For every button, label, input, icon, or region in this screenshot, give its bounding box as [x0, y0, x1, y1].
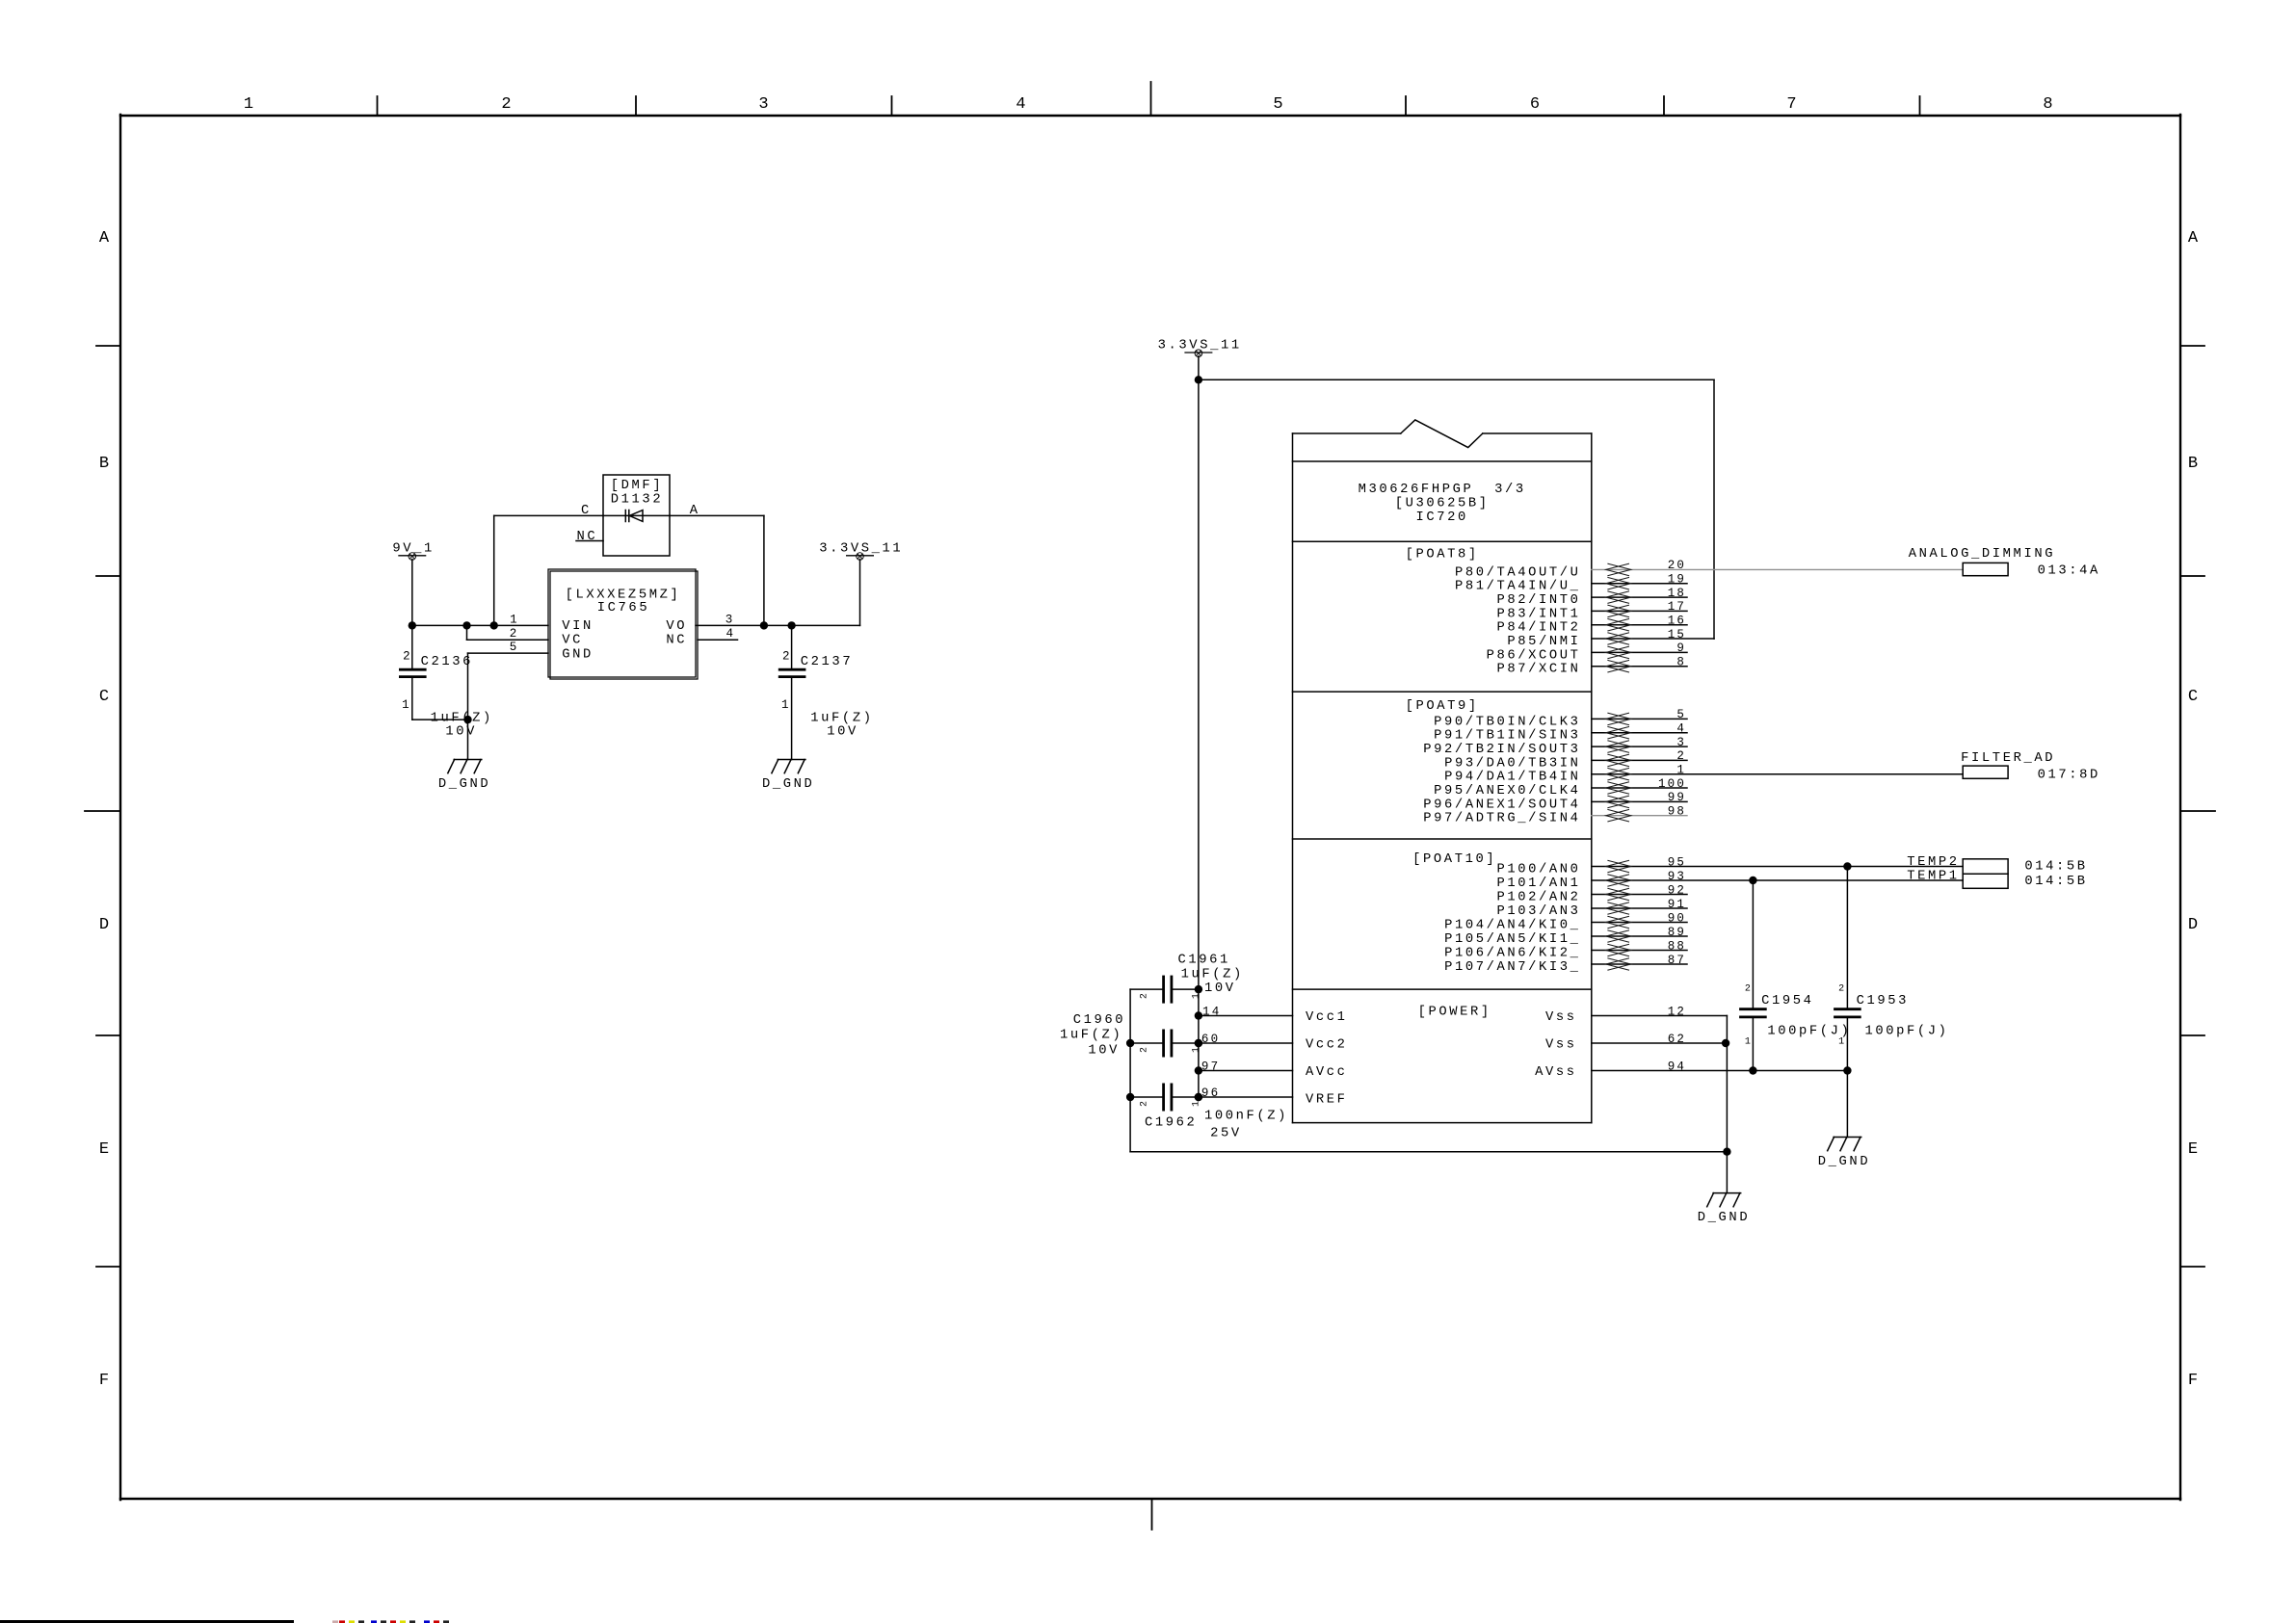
- junction C2136/GND: [463, 716, 471, 723]
- 3.3V rail to pin15: [1713, 380, 1715, 639]
- svg-text:88: 88: [1668, 939, 1686, 953]
- svg-text:1uF(Z): 1uF(Z): [810, 711, 873, 726]
- svg-text:18: 18: [1668, 587, 1686, 600]
- capacitor C2136: [411, 625, 413, 668]
- left cap rail: [1129, 989, 1131, 1152]
- svg-text:89: 89: [1668, 926, 1686, 939]
- svg-text:VREF: VREF: [1306, 1093, 1348, 1108]
- capacitor C2136 plates: [399, 669, 427, 676]
- svg-text:8: 8: [1676, 656, 1686, 669]
- 3.3V rail horizontal: [1199, 379, 1714, 380]
- svg-text:ANALOG_DIMMING: ANALOG_DIMMING: [1909, 547, 2055, 562]
- svg-text:90: 90: [1668, 911, 1686, 925]
- svg-text:C: C: [581, 504, 592, 518]
- ground D_GND (C2137): [772, 760, 805, 773]
- svg-text:P85/NMI: P85/NMI: [1507, 634, 1580, 649]
- diode D1132 box: [603, 475, 670, 556]
- svg-text:97: 97: [1201, 1060, 1220, 1073]
- diode D1132 symbol: [603, 510, 670, 522]
- svg-text:P83/INT1: P83/INT1: [1496, 606, 1580, 621]
- svg-text:15: 15: [1668, 628, 1686, 641]
- capacitor C1953: [1846, 867, 1848, 1008]
- svg-text:Vcc2: Vcc2: [1306, 1038, 1348, 1053]
- svg-text:014:5B: 014:5B: [2024, 875, 2087, 889]
- svg-text:3: 3: [726, 613, 735, 626]
- wire VC pin2: [466, 625, 468, 640]
- svg-text:E: E: [99, 1140, 109, 1159]
- svg-text:[DMF]: [DMF]: [611, 478, 663, 493]
- svg-text:NC: NC: [666, 634, 687, 648]
- svg-text:1: 1: [1676, 764, 1686, 777]
- svg-text:P100/AN0: P100/AN0: [1496, 862, 1580, 877]
- svg-text:91: 91: [1668, 898, 1686, 911]
- svg-text:2: 2: [1139, 993, 1149, 999]
- svg-text:2: 2: [501, 95, 511, 114]
- svg-text:B: B: [99, 455, 109, 473]
- svg-text:TEMP2: TEMP2: [1907, 855, 1959, 870]
- svg-text:2: 2: [782, 650, 792, 664]
- svg-text:96: 96: [1201, 1086, 1220, 1100]
- svg-text:P86/XCOUT: P86/XCOUT: [1487, 647, 1581, 663]
- svg-text:017:8D: 017:8D: [2038, 769, 2100, 783]
- svg-text:VO: VO: [666, 619, 687, 634]
- svg-text:99: 99: [1668, 791, 1686, 804]
- junction diode A: [760, 621, 768, 629]
- svg-text:2: 2: [1139, 1101, 1149, 1107]
- svg-text:C: C: [2188, 688, 2198, 706]
- svg-text:1: 1: [1191, 1047, 1201, 1053]
- svg-text:FILTER_AD: FILTER_AD: [1961, 751, 2055, 766]
- junction C1954 top: [1749, 877, 1756, 884]
- svg-text:P102/AN2: P102/AN2: [1496, 890, 1580, 905]
- junction diode C: [490, 621, 498, 629]
- svg-text:1: 1: [1191, 993, 1201, 999]
- svg-text:3.3VS_11: 3.3VS_11: [1158, 339, 1242, 353]
- wire diode anode: [670, 514, 764, 516]
- svg-text:94: 94: [1668, 1060, 1686, 1073]
- wire diode cathode to input: [493, 515, 495, 625]
- svg-text:P101/AN1: P101/AN1: [1496, 876, 1580, 891]
- svg-text:9V_1: 9V_1: [392, 541, 435, 556]
- svg-text:4: 4: [1676, 722, 1686, 736]
- svg-text:M30626FHPGP 3/3: M30626FHPGP 3/3: [1359, 482, 1526, 497]
- capacitor C1962: [1130, 1096, 1162, 1098]
- svg-text:1uF(Z): 1uF(Z): [1181, 966, 1244, 982]
- svg-text:P82/INT0: P82/INT0: [1496, 592, 1580, 608]
- svg-text:NC: NC: [577, 530, 598, 544]
- svg-text:19: 19: [1668, 573, 1686, 587]
- svg-text:D_GND: D_GND: [1818, 1155, 1870, 1169]
- svg-text:14: 14: [1202, 1005, 1221, 1018]
- svg-text:P94/DA1/TB4IN: P94/DA1/TB4IN: [1444, 770, 1580, 785]
- svg-text:C1961: C1961: [1178, 954, 1230, 968]
- svg-text:1: 1: [1745, 1037, 1751, 1048]
- svg-text:10V: 10V: [1204, 982, 1236, 996]
- junction Vss62: [1722, 1039, 1729, 1047]
- svg-text:D_GND: D_GND: [1698, 1211, 1750, 1225]
- svg-text:F: F: [99, 1372, 109, 1390]
- svg-text:93: 93: [1668, 870, 1686, 883]
- svg-text:P95/ANEX0/CLK4: P95/ANEX0/CLK4: [1434, 783, 1580, 798]
- svg-text:Vss: Vss: [1545, 1010, 1577, 1025]
- junction C2137: [787, 621, 795, 629]
- svg-text:9: 9: [1676, 641, 1686, 655]
- svg-text:1: 1: [1191, 1101, 1201, 1107]
- svg-text:B: B: [2188, 455, 2198, 473]
- svg-text:IC720: IC720: [1415, 510, 1467, 525]
- svg-text:4: 4: [726, 627, 736, 641]
- svg-text:1uF(Z): 1uF(Z): [1060, 1028, 1122, 1043]
- svg-text:1uF(Z): 1uF(Z): [431, 711, 493, 726]
- node VIN input wire: [412, 624, 548, 626]
- svg-text:2: 2: [1139, 1047, 1149, 1053]
- svg-text:P92/TB2IN/SOUT3: P92/TB2IN/SOUT3: [1423, 742, 1580, 757]
- capacitor C2137: [791, 625, 793, 668]
- svg-text:17: 17: [1668, 600, 1686, 614]
- svg-text:3: 3: [758, 95, 768, 114]
- svg-text:F: F: [2188, 1372, 2198, 1390]
- svg-text:62: 62: [1668, 1033, 1686, 1046]
- C1954 plates: [1739, 1009, 1767, 1017]
- svg-text:8: 8: [2043, 95, 2052, 114]
- svg-text:E: E: [2188, 1140, 2198, 1159]
- svg-text:GND: GND: [562, 647, 594, 662]
- svg-text:Vss: Vss: [1545, 1038, 1577, 1053]
- svg-text:2: 2: [1838, 984, 1844, 995]
- svg-text:16: 16: [1668, 615, 1686, 628]
- junction 9V/C2136: [409, 621, 416, 629]
- bottom clipped colored text fragments: [332, 1620, 449, 1623]
- svg-text:P93/DA0/TB3IN: P93/DA0/TB3IN: [1444, 755, 1580, 771]
- ruler tick bottom middle: [1151, 1499, 1153, 1530]
- svg-text:P107/AN7/KI3_: P107/AN7/KI3_: [1444, 959, 1580, 975]
- svg-text:P103/AN3: P103/AN3: [1496, 903, 1580, 919]
- svg-text:C1953: C1953: [1857, 994, 1909, 1008]
- bottom page fragment bar: [0, 1620, 294, 1623]
- junction C1953 top: [1843, 862, 1851, 870]
- svg-text:P97/ADTRG_/SIN4: P97/ADTRG_/SIN4: [1423, 811, 1580, 826]
- svg-text:C: C: [99, 688, 109, 706]
- C1953 plates: [1834, 1009, 1861, 1017]
- svg-text:IC765: IC765: [597, 601, 649, 615]
- NC pin4 stub: [698, 639, 738, 641]
- svg-text:C2136: C2136: [421, 655, 473, 669]
- svg-text:92: 92: [1668, 883, 1686, 897]
- svg-text:014:5B: 014:5B: [2024, 860, 2087, 875]
- ground D_GND (AVss): [1828, 1138, 1861, 1151]
- svg-text:10V: 10V: [445, 724, 477, 739]
- svg-text:D_GND: D_GND: [762, 777, 814, 792]
- svg-text:1: 1: [781, 698, 791, 712]
- svg-text:013:4A: 013:4A: [2038, 564, 2100, 579]
- svg-text:20: 20: [1668, 559, 1686, 572]
- capacitor C1961: [1130, 988, 1162, 990]
- svg-text:3.3VS_11: 3.3VS_11: [819, 541, 903, 556]
- bottom ground rail: [1130, 1151, 1727, 1153]
- svg-text:7: 7: [1786, 95, 1796, 114]
- svg-text:[POWER]: [POWER]: [1418, 1005, 1491, 1020]
- svg-text:2: 2: [1745, 984, 1751, 995]
- capacitor C2137 plates: [779, 669, 806, 676]
- svg-text:100pF(J): 100pF(J): [1865, 1024, 1949, 1039]
- svg-text:[POAT8]: [POAT8]: [1406, 546, 1479, 562]
- wire GND pin5: [468, 652, 549, 654]
- svg-text:4: 4: [1016, 95, 1025, 114]
- svg-text:C1954: C1954: [1761, 994, 1813, 1008]
- svg-text:D: D: [2188, 916, 2198, 934]
- ruler ticks right: [2180, 345, 2204, 347]
- svg-text:2: 2: [1676, 749, 1686, 763]
- svg-text:P90/TB0IN/CLK3: P90/TB0IN/CLK3: [1434, 714, 1580, 729]
- svg-text:2: 2: [403, 650, 412, 664]
- svg-text:P80/TA4OUT/U: P80/TA4OUT/U: [1455, 564, 1581, 580]
- svg-text:VIN: VIN: [562, 619, 594, 634]
- regulator IC765 box: [548, 569, 696, 677]
- Vss drain vertical: [1726, 1016, 1728, 1193]
- svg-text:[POAT9]: [POAT9]: [1406, 698, 1479, 714]
- svg-text:5: 5: [510, 641, 519, 654]
- IC720 MCU box outline: [1293, 420, 1592, 1123]
- svg-text:D1132: D1132: [611, 493, 663, 508]
- svg-text:6: 6: [1530, 95, 1540, 114]
- svg-text:D: D: [99, 916, 109, 934]
- svg-text:A: A: [2188, 229, 2199, 248]
- svg-text:A: A: [99, 229, 110, 248]
- junction bottom rail: [1723, 1148, 1730, 1156]
- svg-text:Vcc1: Vcc1: [1306, 1010, 1348, 1025]
- svg-text:AVss: AVss: [1535, 1065, 1577, 1080]
- svg-text:P105/AN5/KI1_: P105/AN5/KI1_: [1444, 931, 1580, 947]
- svg-text:1: 1: [244, 95, 253, 114]
- 3.3V vertical rail: [1198, 380, 1200, 1097]
- sheet border frame: [120, 115, 2180, 1500]
- svg-text:5: 5: [1273, 95, 1282, 114]
- svg-text:P104/AN4/KI0_: P104/AN4/KI0_: [1444, 918, 1580, 933]
- svg-text:95: 95: [1668, 855, 1686, 869]
- junction 3.3V rail: [1195, 376, 1202, 383]
- ground D_GND (Vss): [1707, 1193, 1741, 1207]
- svg-text:AVcc: AVcc: [1306, 1065, 1348, 1080]
- svg-text:C1960: C1960: [1073, 1013, 1125, 1028]
- svg-text:P87/XCIN: P87/XCIN: [1496, 662, 1580, 677]
- wire 9V_1 down: [411, 560, 413, 626]
- svg-text:1: 1: [1838, 1037, 1844, 1048]
- svg-text:5: 5: [1676, 708, 1686, 721]
- svg-text:A: A: [690, 504, 700, 518]
- svg-text:25V: 25V: [1210, 1127, 1242, 1141]
- svg-text:98: 98: [1668, 805, 1686, 819]
- svg-text:P91/TB1IN/SIN3: P91/TB1IN/SIN3: [1434, 728, 1580, 744]
- ruler ticks left: [96, 345, 120, 347]
- junction VC: [462, 621, 470, 629]
- svg-text:1: 1: [402, 698, 411, 712]
- svg-text:3: 3: [1676, 736, 1686, 749]
- diode NC stub: [576, 540, 603, 542]
- svg-text:TEMP1: TEMP1: [1907, 870, 1959, 884]
- svg-text:60: 60: [1201, 1033, 1220, 1046]
- wire VO output: [696, 624, 860, 626]
- capacitor C1960: [1130, 1042, 1162, 1044]
- svg-text:100: 100: [1658, 777, 1686, 791]
- svg-text:VC: VC: [562, 634, 583, 648]
- svg-text:12: 12: [1668, 1005, 1686, 1018]
- svg-text:C2137: C2137: [801, 655, 853, 669]
- svg-text:1: 1: [510, 613, 519, 626]
- svg-text:87: 87: [1668, 954, 1686, 967]
- svg-text:P96/ANEX1/SOUT4: P96/ANEX1/SOUT4: [1423, 797, 1580, 812]
- svg-text:C1962: C1962: [1145, 1116, 1197, 1131]
- svg-text:P84/INT2: P84/INT2: [1496, 620, 1580, 636]
- svg-text:[POAT10]: [POAT10]: [1412, 851, 1496, 867]
- svg-text:100nF(Z): 100nF(Z): [1204, 1108, 1288, 1123]
- svg-text:P81/TA4IN/U_: P81/TA4IN/U_: [1455, 579, 1581, 594]
- ground D_GND (C2136): [448, 760, 482, 773]
- svg-text:10V: 10V: [827, 724, 858, 739]
- svg-text:P106/AN6/KI2_: P106/AN6/KI2_: [1444, 946, 1580, 961]
- svg-text:D_GND: D_GND: [438, 777, 490, 792]
- capacitor C1954: [1752, 880, 1754, 1008]
- svg-text:2: 2: [510, 627, 519, 641]
- svg-text:[U30625B]: [U30625B]: [1395, 496, 1490, 511]
- svg-text:10V: 10V: [1088, 1043, 1120, 1058]
